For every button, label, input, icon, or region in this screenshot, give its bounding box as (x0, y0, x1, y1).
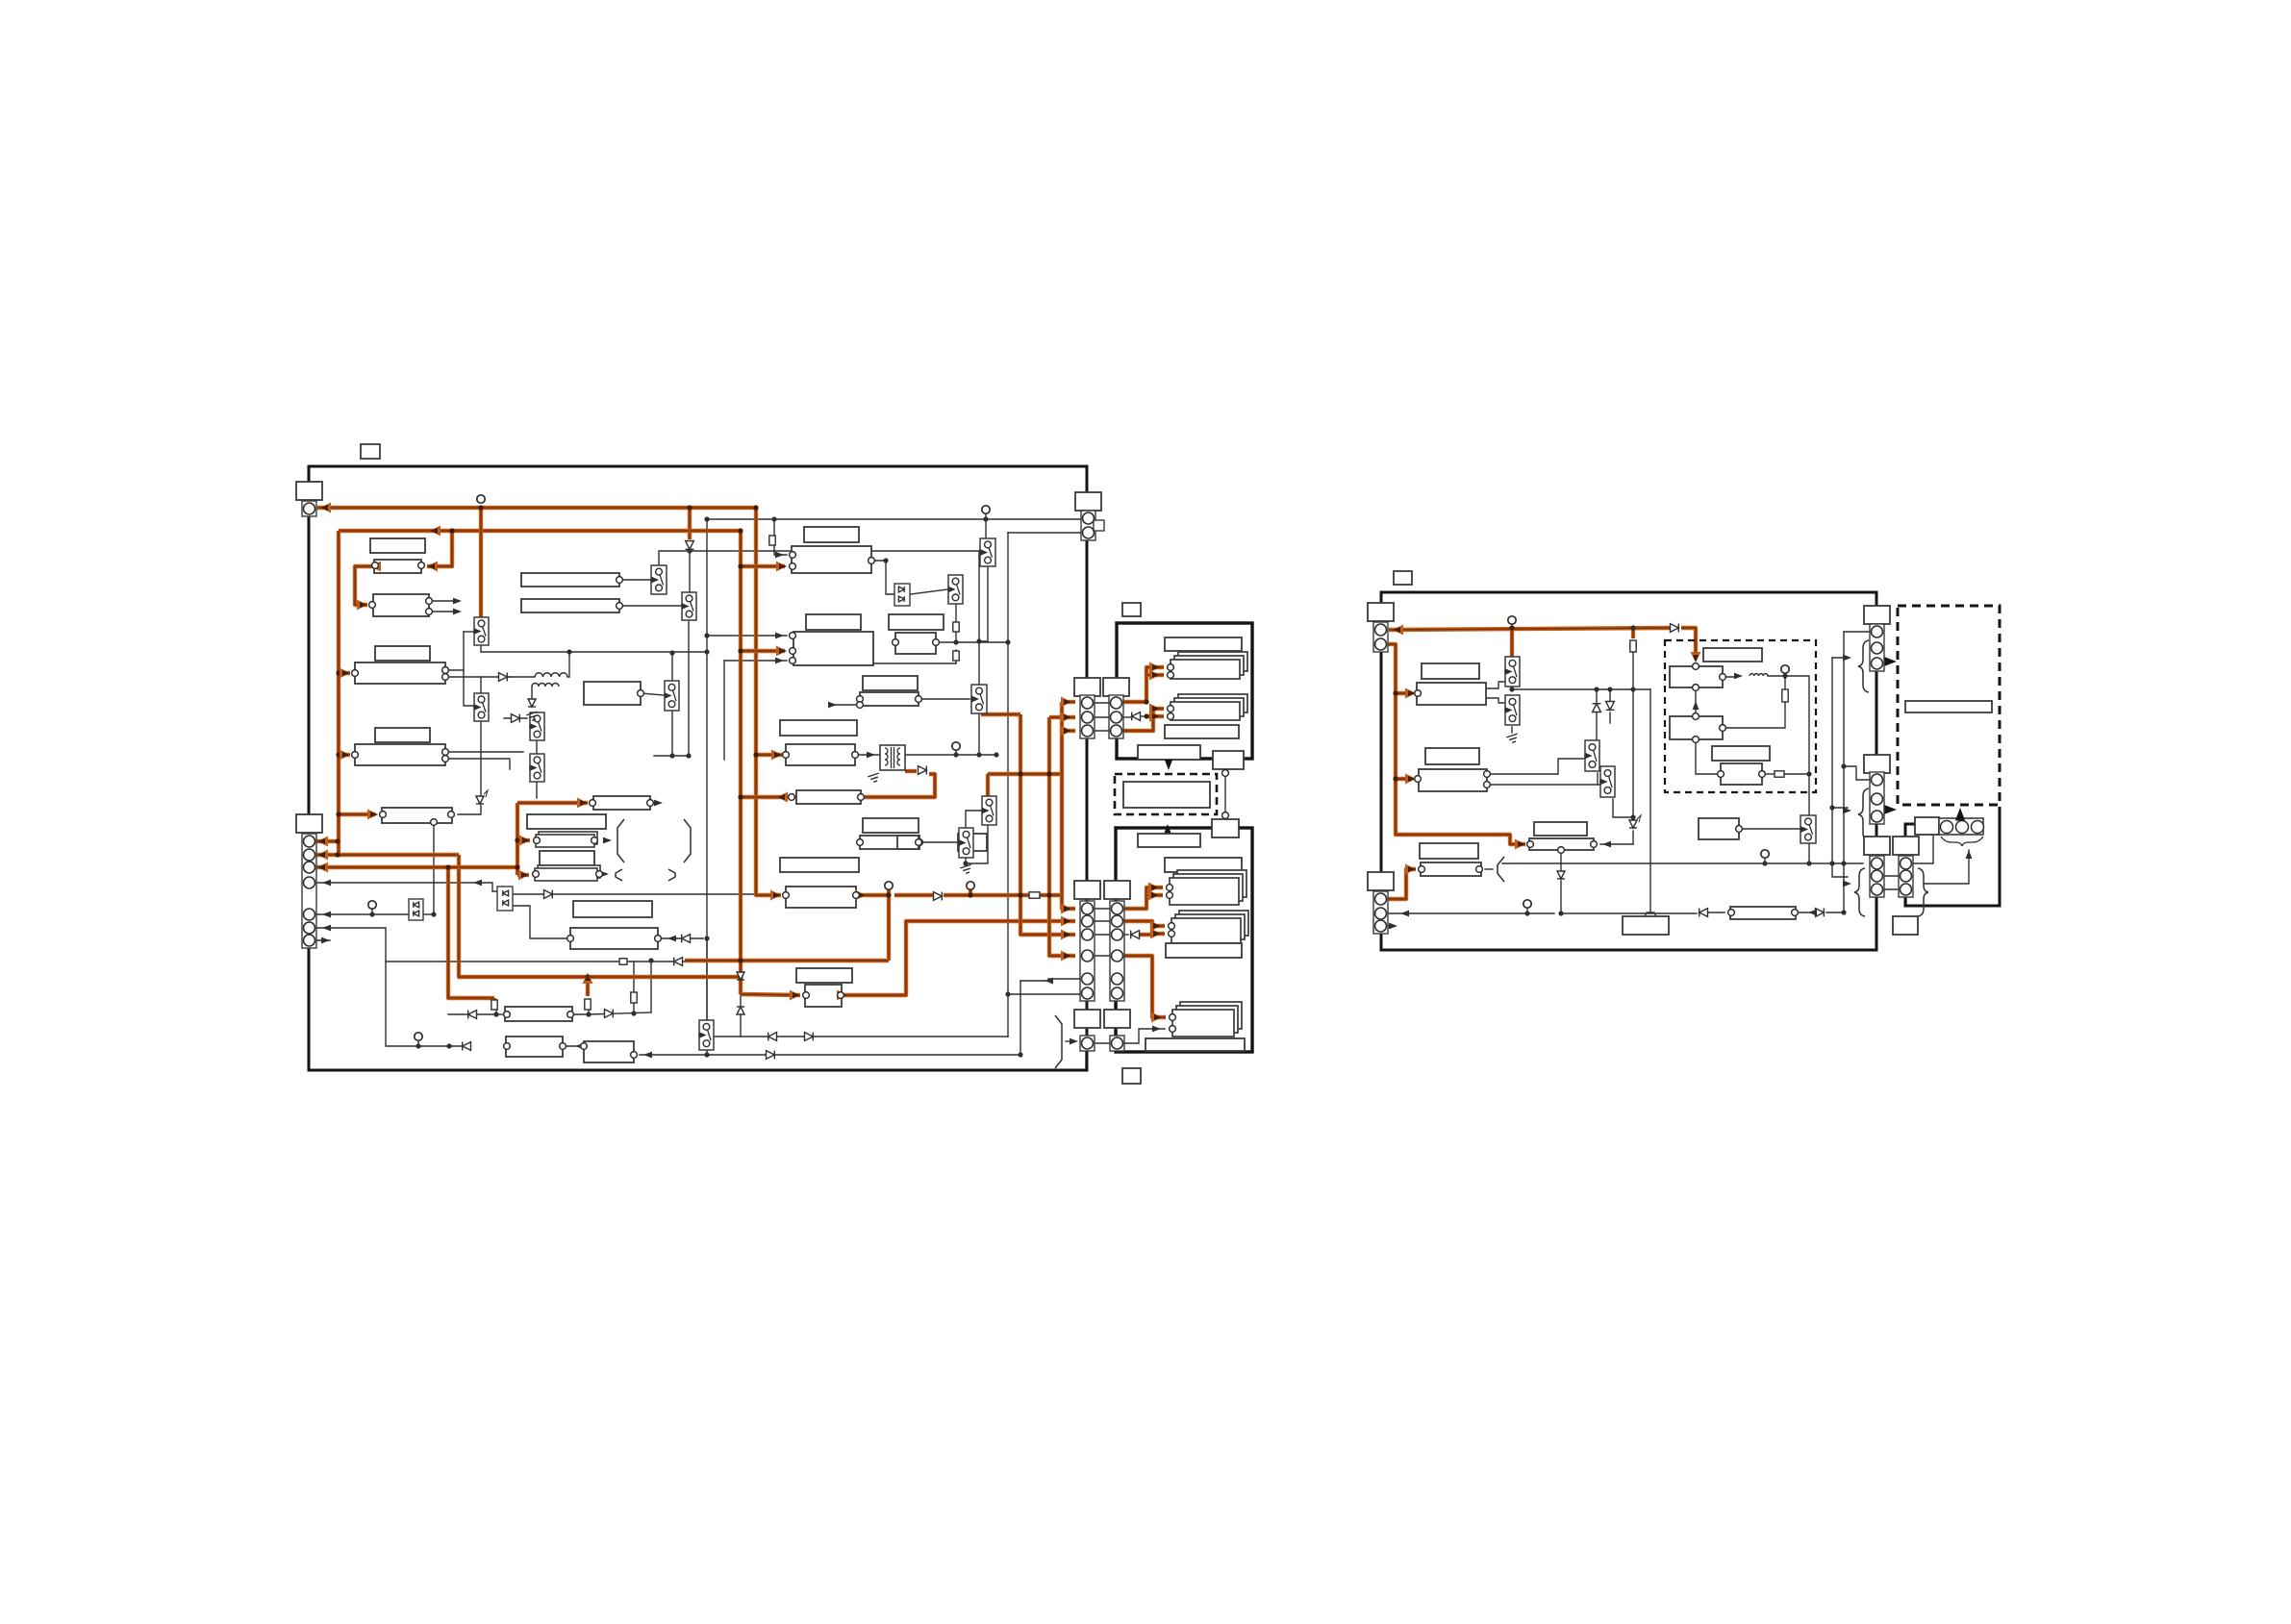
arrow ECU-A out (869, 558, 877, 564)
junction (1509, 687, 1514, 691)
connector pair right (1893, 837, 1919, 897)
junction (478, 505, 483, 510)
wire y1055 a (448, 1013, 496, 1015)
diode pair up (1593, 704, 1601, 712)
highlight arrow into B1 c1 (1393, 625, 1403, 636)
resistor right (1630, 640, 1636, 652)
highlight arrow stack2 p2 (1149, 712, 1160, 722)
pin pin N2 R (560, 1043, 566, 1050)
wire terminal stub2 (1764, 858, 1766, 863)
component box B7 (355, 744, 445, 765)
relay Rb (1504, 695, 1520, 725)
highlighted wire drop x770 (739, 531, 743, 994)
resistor x659 (631, 992, 637, 1003)
wire thick conn link (1876, 677, 1878, 755)
pin pin ECU-A p1 (790, 552, 796, 559)
junction (1806, 771, 1811, 776)
label box top (361, 444, 380, 459)
pin pin C4 R (596, 871, 603, 878)
header box D3 (1703, 648, 1762, 662)
wire relay R5 down (706, 1050, 708, 1055)
wire coil end riser (567, 652, 569, 677)
wire arm riser (463, 632, 465, 670)
junction (1841, 910, 1846, 914)
dashed box D2 far right (1898, 606, 2000, 805)
wire pair link2 (1884, 888, 1899, 890)
diode pair box DP1 (409, 899, 423, 920)
wire D3-2 to D3-4 (1696, 739, 1719, 774)
pin pin B8 bottom (431, 819, 438, 826)
junction (886, 892, 891, 897)
junction (983, 516, 988, 521)
wire relay H to I (536, 740, 538, 754)
wire P2 link c4 (1094, 955, 1109, 957)
connector C tab (1094, 520, 1104, 531)
wire P2 c3 out (1122, 934, 1128, 936)
arrow pin7 out (321, 937, 330, 944)
component box M1 (573, 901, 652, 917)
wire relay K1 to K2 (979, 562, 988, 641)
highlight arrow stack4 p2 (1150, 929, 1161, 939)
junction (1046, 771, 1051, 776)
junction (1144, 699, 1148, 704)
pin pin D4 L (857, 696, 864, 703)
highlighted wire y931 a (944, 893, 1029, 897)
highlighted wire to B5 pin (339, 671, 350, 675)
wire vertical x1018 (978, 551, 980, 685)
fuse box B8 (382, 808, 452, 823)
arrow y950 (1808, 910, 1817, 916)
pin D3-1 right (1720, 674, 1726, 681)
pin pin B7 L (352, 752, 359, 759)
pin R-B L (1415, 776, 1422, 783)
wire relay K3 to K4 (966, 811, 982, 828)
highlighted wire y829 a (741, 795, 792, 799)
highlight arrow stack3 p2 (1148, 890, 1159, 901)
stacked boxes group1 (1171, 652, 1247, 679)
header box B6 (375, 728, 430, 742)
wire relay Rd down (1613, 799, 1633, 817)
highlighted wire stack4 pin2 (1152, 926, 1165, 934)
wire y1055 d (589, 1012, 651, 1014)
terminal o2 (967, 882, 974, 889)
wire pin6 line (309, 928, 462, 1046)
highlighted wire terminal stub o (887, 888, 891, 895)
arrow up bold (1955, 808, 1965, 821)
pin link lower (1222, 812, 1229, 819)
wire pin3 out (1381, 925, 1395, 927)
wire y898 (1502, 862, 1809, 864)
diode N1 left (468, 1011, 477, 1019)
connector P2 left (1074, 881, 1100, 1001)
diode DP3b (898, 596, 904, 602)
wire diode to coil (510, 676, 535, 678)
highlight arrow into C2 (519, 836, 530, 846)
highlight arrow B2 left out (370, 562, 381, 572)
highlight arrow into pin3 A2 (317, 862, 328, 873)
arrow N3 (643, 1052, 652, 1059)
bracket left big (617, 819, 624, 862)
component box R-A (1417, 683, 1486, 705)
highlight arrow P1 c3 (1061, 726, 1071, 737)
highlighted wire B2 to B3 (355, 566, 421, 605)
diode feed relay H (512, 714, 520, 723)
terminal y785 (952, 742, 960, 750)
highlighted wire stub to D1 (688, 508, 692, 539)
highlighted wire to diode D9 (894, 893, 934, 897)
highlighted wire lineB lower (459, 855, 741, 977)
stacked box pair C2 (536, 832, 597, 847)
pin pin ECU-B p2 (790, 648, 796, 655)
label box right diagram (1394, 571, 1412, 585)
dashed box D1 (1115, 774, 1217, 814)
wire box6 down (1560, 850, 1562, 871)
wire terminal stub (955, 749, 957, 755)
component box B9 (593, 796, 650, 810)
wire arm stub R1 (464, 631, 473, 633)
pin pin B2 L (372, 562, 379, 569)
junction (431, 912, 436, 916)
header box D3-3 (1712, 746, 1770, 761)
resistor Ra (953, 622, 959, 632)
junction (415, 1043, 420, 1048)
pin pin ECU-A p2 (790, 563, 796, 570)
highlighted wire left riser x352 (337, 531, 340, 855)
bracket right big (684, 819, 691, 862)
wire relay K3 ground link (966, 818, 988, 863)
ECU box A (792, 546, 871, 573)
component box link lower (1212, 819, 1239, 837)
wire P1 right col stub (1116, 678, 1118, 696)
junction (687, 505, 692, 510)
wire box5b out (1600, 843, 1633, 845)
component box D3-1 (1670, 666, 1723, 687)
highlighted wire to fuse B8 (339, 812, 375, 816)
wire right col stub (1905, 899, 1907, 906)
highlighted wire to B2 pin2 (427, 531, 452, 566)
junction (1782, 673, 1787, 678)
arrow down to dashed (1165, 760, 1173, 770)
component box tab (1623, 916, 1669, 935)
diode y950 R (1816, 909, 1825, 917)
wire relay Rc down (1597, 773, 1599, 785)
component box R-B (1419, 769, 1487, 791)
wire into relay R2 (480, 677, 482, 694)
highlighted wire P1 c3 out (1122, 716, 1153, 731)
junction (669, 650, 674, 655)
diode DP2a (503, 890, 509, 896)
component box inside dashed D1 (1123, 782, 1210, 808)
wire vertical feed x735 (706, 519, 708, 1051)
highlighted wire line1 a (317, 506, 481, 510)
pin stack1 p1 (1168, 664, 1174, 671)
wire resistor x659 dn (633, 1003, 635, 1013)
pin stack1 p2 (1168, 672, 1174, 679)
highlighted wire relay K3 feed (986, 774, 990, 798)
wire P3 link (1094, 1042, 1110, 1044)
relay I (529, 754, 544, 782)
pin pin N2 L (504, 1043, 511, 1050)
component box sub-upper plain (1165, 725, 1239, 738)
wire box2 out1 (1487, 759, 1585, 774)
wire relay R2 down (480, 721, 482, 798)
highlighted wire drop x924 (887, 895, 891, 961)
highlighted wire pin3 lineC (309, 865, 517, 869)
junction (953, 639, 958, 644)
arrow N2 (575, 1043, 584, 1050)
relay H (529, 712, 544, 740)
wire P2 link c1 (1094, 908, 1109, 910)
highlighted wire to B7 pin (339, 753, 350, 757)
diode D9 (934, 892, 943, 901)
arrow pin4 mid (473, 880, 482, 887)
diode N1 right (605, 1010, 614, 1018)
header box R-A hdr (1422, 663, 1479, 679)
wire P3 to frame bottom (1085, 1050, 1087, 1070)
wire P1 c2 out (1122, 716, 1131, 718)
bracket after R-D (1498, 857, 1504, 882)
pin stack3 p2 (1167, 892, 1173, 899)
wire box N link (563, 1045, 585, 1047)
junction (963, 861, 968, 865)
wire ECU-A out (871, 561, 894, 594)
stacked boxes group4 (1171, 911, 1248, 943)
long component box row1 (521, 573, 619, 587)
wire S3 top link bus y573 (659, 551, 979, 565)
arrow up from dashed (1164, 824, 1172, 835)
pin pin B2 R (418, 562, 425, 569)
arrow D4 feed (828, 702, 837, 709)
highlight arrow into C4 (518, 870, 529, 881)
highlighted wire to box5 (1381, 869, 1416, 899)
junction (704, 936, 709, 940)
highlight arrow into BB3 (790, 990, 800, 1001)
junction (704, 649, 709, 654)
component box inside D2 (1905, 701, 1992, 712)
highlighted wire stack1 pin2 (1146, 673, 1164, 677)
terminal dashed (1781, 665, 1789, 673)
wire frame edge mid segment (1086, 741, 1088, 881)
wire vertical x699 (671, 653, 673, 756)
wire B3 out1 (429, 600, 458, 602)
junction (1829, 861, 1834, 865)
highlight arrow into E2 (770, 890, 781, 901)
diode pair box DP2 (497, 887, 513, 911)
wire x1698 vertical (1632, 653, 1634, 820)
wire box row2 to S4 (619, 605, 683, 607)
highlighted wire resistor feed (1631, 628, 1635, 638)
junction (1762, 861, 1767, 865)
diode D2 (499, 673, 508, 682)
arrow B3 out1 (453, 598, 462, 605)
arrow pin6 (322, 925, 331, 932)
wire x1698 lower (1632, 831, 1634, 844)
wire x451 vertical (433, 822, 435, 914)
terminal pin5 (368, 901, 376, 909)
junction (1630, 687, 1635, 691)
highlighted wire transformer out (905, 769, 917, 773)
diode pair box DP3 (894, 584, 910, 606)
wire P1 link c2 (1094, 716, 1109, 718)
header box C1 (527, 814, 606, 829)
component box D3-4 (1721, 763, 1762, 785)
header box BB3 hdr (796, 968, 852, 983)
pin R-D R (1476, 866, 1483, 873)
wire relay R1 out (480, 639, 482, 652)
junction (493, 1012, 498, 1016)
connector P2 right (1104, 881, 1130, 1001)
diode feed right (1671, 624, 1679, 633)
arrow P2 c5 out (1045, 978, 1053, 985)
highlight arrow into pin1 A2 (317, 837, 328, 847)
pin stack4 p1 (1169, 923, 1175, 930)
highlighted wire y743 stub (981, 712, 1020, 716)
wire resistor drop b (588, 1011, 590, 1014)
junction (336, 812, 340, 816)
pin pin D4 R (916, 696, 922, 703)
wire B5 pin2 row (445, 676, 511, 678)
diode y1097 (767, 1051, 775, 1060)
wire terminal stub5 (371, 909, 373, 914)
terminal above feed (1508, 616, 1516, 624)
wire into relay K3 (987, 774, 989, 801)
header box D5 hdr (780, 720, 857, 736)
highlight arrow into R-D (1405, 864, 1416, 875)
highlight arrow resistor up (583, 973, 593, 984)
inductor L2 (532, 684, 559, 687)
pin pin M2 R (655, 936, 662, 942)
junction (1018, 771, 1022, 776)
wire D3-4 out (1764, 773, 1775, 775)
component box R-D (1421, 862, 1481, 876)
ground (960, 864, 970, 873)
highlighted wire y829 to diode (865, 774, 935, 797)
component box sub-upper bottom (1138, 745, 1200, 760)
junction (515, 864, 519, 869)
arrow B9 out (654, 800, 663, 807)
pin D3-4 L (1718, 771, 1725, 778)
wire P3 to stack5 (1124, 1029, 1165, 1043)
highlighted wire to P1 c3 (1062, 729, 1075, 733)
wire vertical x716 (688, 620, 690, 756)
highlighted wire riser x1104 (1062, 702, 1075, 909)
wire resistor to box D3-2 (1725, 702, 1785, 728)
switch S3 (650, 565, 667, 594)
wire diode dn out (1609, 712, 1611, 723)
header box sub-upper (1165, 637, 1242, 651)
junction (738, 974, 743, 979)
highlighted wire relay R1 feed (479, 508, 483, 623)
wire box row1 to S3 (619, 579, 652, 581)
wire diode out (1139, 715, 1146, 717)
junction (335, 838, 340, 843)
arrow C2 out (603, 837, 612, 844)
pin pin row2 R (617, 603, 623, 610)
bracket left small (616, 869, 622, 881)
wire pin5 P2 out (1020, 980, 1045, 982)
pin D3-2 bottom (1693, 737, 1699, 743)
wire P2 link c3 (1094, 934, 1109, 936)
pin D3-2 top (1693, 713, 1699, 720)
component box D2 (895, 633, 936, 654)
fuse on y931 (1029, 892, 1040, 898)
highlighted wire to box1 (1396, 691, 1412, 695)
arrow R-C out (1602, 841, 1611, 848)
wire relay R4d down (1808, 843, 1810, 863)
wire x1905 vertical (1831, 658, 1833, 863)
fuse on y1000 (619, 959, 627, 964)
highlighted wire P2 out c1 (1122, 887, 1163, 909)
wire B7 pin2 right (445, 759, 510, 769)
pin pin E4 L (857, 839, 864, 846)
arrow D3 link (1693, 701, 1699, 710)
wire P2 c6 line (1008, 993, 1081, 995)
wire y717 bus (1512, 687, 1650, 689)
component box B2 (374, 560, 421, 573)
pin pin B3 R2 (426, 609, 433, 615)
pin pin B9 L (590, 800, 596, 807)
highlighted wire stack2 pin2 (1153, 714, 1164, 718)
highlighted wire to ECU-E pin (756, 893, 781, 895)
pin D3-2 right (1720, 725, 1726, 732)
component box N2 (506, 1037, 563, 1057)
pin pin row1 R (617, 577, 623, 584)
ECU box B (793, 632, 873, 665)
wire to connector C pin 2 (1008, 532, 1081, 534)
wire resistor x659 up (633, 962, 635, 992)
component box BB3 (805, 985, 842, 1007)
wire B11 to relay R3 (641, 693, 664, 695)
junction (1144, 713, 1148, 718)
wire to box M left pin (512, 906, 567, 938)
wire D3 resistor2 out (1784, 773, 1809, 775)
diode DP3a (898, 587, 904, 592)
pin pin B5 R1 (442, 667, 449, 674)
highlight arrow out BB3 (837, 990, 847, 1001)
connector B2 (1368, 872, 1394, 934)
junction (1630, 625, 1635, 630)
highlight arrow line2 (430, 526, 441, 537)
pin R-C R (1591, 841, 1598, 848)
highlighted wire to BB3 (741, 994, 800, 995)
brace pair-left (1854, 868, 1865, 916)
component box sub-lower plain (1166, 943, 1242, 958)
wire relay K0 down (955, 604, 957, 622)
wire x1905 top (1832, 657, 1848, 659)
pin pin B7 R1 (442, 749, 449, 756)
connector P3 left (1074, 1010, 1100, 1051)
pin R-F L (1728, 910, 1735, 916)
junction (1630, 814, 1635, 819)
long component box row2 (521, 599, 619, 612)
highlight arrow stack2 p1 (1149, 704, 1160, 714)
wire to ECU-B pin3 (724, 660, 787, 662)
pin link upper (1222, 770, 1229, 777)
wire y1055 b (496, 1013, 507, 1015)
junction (976, 638, 981, 643)
arrow into brace1 (1843, 655, 1851, 662)
header box B4 (375, 646, 430, 661)
wire left col down (1876, 899, 1878, 947)
highlighted wire main feed (1389, 628, 1670, 630)
label box sub-lower (1122, 1068, 1141, 1084)
pin R-C bottom (1558, 847, 1565, 854)
relay K4 (958, 828, 973, 858)
wire vertical x753 (723, 661, 725, 760)
frame right diagram border (1381, 592, 1876, 950)
wire pin4 line (309, 883, 497, 891)
wire link vertical (1224, 777, 1226, 812)
